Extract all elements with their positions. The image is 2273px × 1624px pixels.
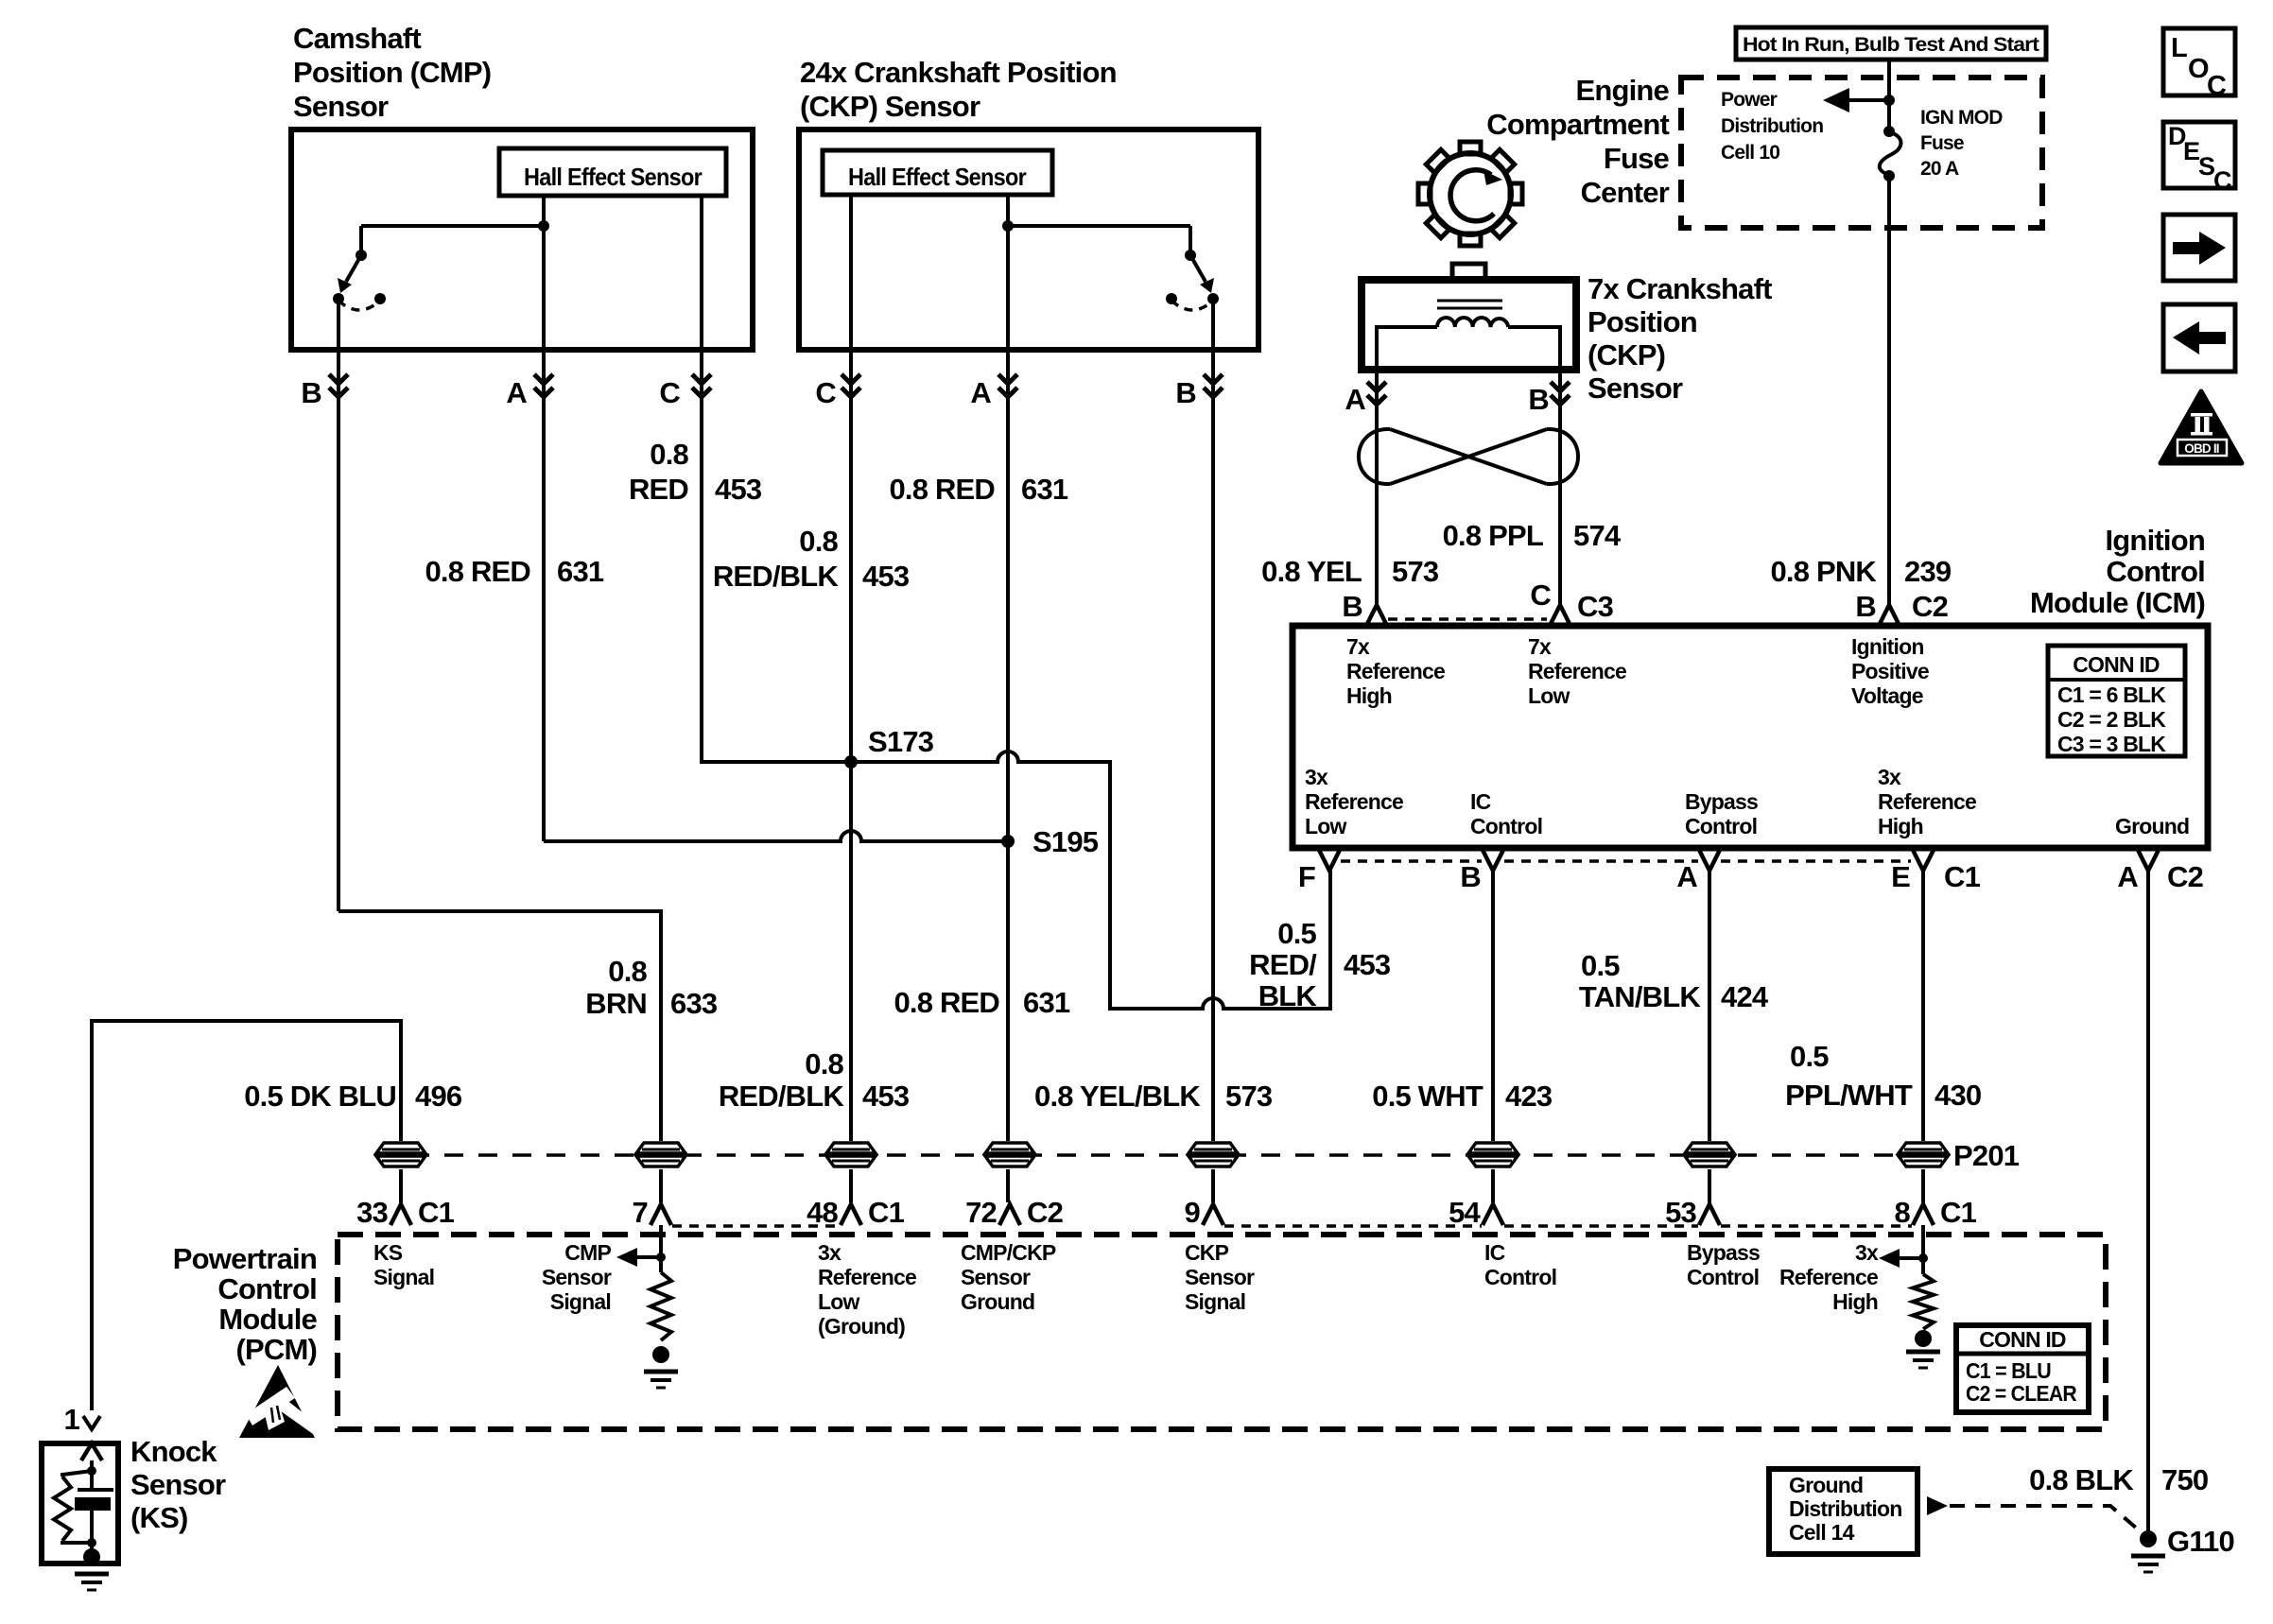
svg-text:C2 = CLEAR: C2 = CLEAR <box>1966 1381 2077 1406</box>
svg-text:Ignition: Ignition <box>2105 524 2205 557</box>
svg-text:Ignition: Ignition <box>1851 634 1924 659</box>
svg-text:Low: Low <box>1305 814 1346 838</box>
svg-text:High: High <box>1346 683 1392 708</box>
svg-text:Reference: Reference <box>1346 659 1445 683</box>
svg-text:B: B <box>1342 590 1362 623</box>
svg-text:C2: C2 <box>2167 860 2203 893</box>
svg-text:0.8: 0.8 <box>805 1047 843 1080</box>
svg-text:IC: IC <box>1470 789 1491 814</box>
svg-text:C: C <box>2213 166 2231 195</box>
svg-text:72: 72 <box>965 1196 997 1229</box>
svg-text:0.8 YEL: 0.8 YEL <box>1261 555 1362 588</box>
svg-text:0.8 BLK: 0.8 BLK <box>2029 1463 2134 1496</box>
svg-text:Positive: Positive <box>1851 659 1929 683</box>
svg-text:1: 1 <box>64 1403 80 1436</box>
svg-text:Hot In Run, Bulb Test And Star: Hot In Run, Bulb Test And Start <box>1743 34 2039 56</box>
svg-text:IC: IC <box>1484 1240 1505 1265</box>
svg-text:Fuse: Fuse <box>1604 142 1670 175</box>
svg-text:A: A <box>970 376 991 409</box>
svg-text:S173: S173 <box>868 725 934 758</box>
svg-text:750: 750 <box>2161 1463 2208 1496</box>
svg-text:Hall Effect Sensor: Hall Effect Sensor <box>848 163 1027 191</box>
svg-text:BRN: BRN <box>585 987 647 1020</box>
svg-text:Ground: Ground <box>961 1289 1034 1314</box>
svg-text:B: B <box>1528 383 1549 416</box>
svg-text:Sensor: Sensor <box>293 90 389 123</box>
svg-text:633: 633 <box>670 987 718 1020</box>
svg-text:453: 453 <box>862 560 910 593</box>
svg-text:0.5: 0.5 <box>1581 949 1620 982</box>
svg-text:RED/BLK: RED/BLK <box>713 560 840 593</box>
svg-text:Engine: Engine <box>1575 74 1669 107</box>
svg-text:Low: Low <box>1528 683 1570 708</box>
svg-text:P201: P201 <box>1953 1139 2020 1172</box>
svg-text:0.5: 0.5 <box>1277 917 1316 950</box>
svg-text:High: High <box>1878 814 1923 838</box>
svg-text:48: 48 <box>807 1196 838 1229</box>
svg-text:631: 631 <box>1023 986 1070 1019</box>
svg-text:A: A <box>506 376 527 409</box>
svg-text:453: 453 <box>862 1080 910 1113</box>
svg-text:0.5 WHT: 0.5 WHT <box>1372 1080 1484 1113</box>
svg-text:Low: Low <box>818 1289 859 1314</box>
svg-text:(Ground): (Ground) <box>818 1314 905 1339</box>
svg-text:Reference: Reference <box>1528 659 1626 683</box>
svg-text:Bypass: Bypass <box>1687 1240 1760 1265</box>
svg-text:C: C <box>2207 71 2227 101</box>
svg-text:Compartment: Compartment <box>1486 108 1669 141</box>
svg-text:54: 54 <box>1449 1196 1481 1229</box>
svg-text:Reference: Reference <box>1305 789 1403 814</box>
svg-text:BLK: BLK <box>1258 979 1318 1012</box>
svg-text:Reference: Reference <box>818 1265 916 1289</box>
svg-text:C3: C3 <box>1577 590 1614 623</box>
svg-text:Sensor: Sensor <box>961 1265 1031 1289</box>
svg-text:430: 430 <box>1935 1079 1981 1112</box>
svg-text:C1: C1 <box>418 1196 455 1229</box>
svg-text:Ground: Ground <box>1789 1473 1863 1497</box>
svg-text:C2: C2 <box>1027 1196 1063 1229</box>
svg-text:RED/: RED/ <box>1249 948 1317 981</box>
svg-text:8: 8 <box>1895 1196 1911 1229</box>
svg-text:0.8: 0.8 <box>650 438 688 471</box>
svg-text:C1: C1 <box>1940 1196 1977 1229</box>
svg-text:0.5 DK BLU: 0.5 DK BLU <box>244 1080 396 1113</box>
svg-text:RED: RED <box>629 473 688 506</box>
svg-text:Control: Control <box>1484 1265 1556 1289</box>
svg-text:OBD II: OBD II <box>2184 441 2219 456</box>
svg-text:Control: Control <box>1685 814 1757 838</box>
svg-text:0.8 RED: 0.8 RED <box>889 473 995 506</box>
svg-text:7x: 7x <box>1528 634 1552 659</box>
svg-text:496: 496 <box>415 1080 462 1113</box>
svg-text:Voltage: Voltage <box>1851 683 1923 708</box>
svg-text:24x Crankshaft Position: 24x Crankshaft Position <box>800 56 1117 89</box>
svg-text:C: C <box>659 376 680 409</box>
svg-text:C3 = 3 BLK: C3 = 3 BLK <box>2057 732 2166 756</box>
svg-text:Sensor: Sensor <box>130 1468 226 1501</box>
svg-text:PPL/WHT: PPL/WHT <box>1785 1079 1913 1112</box>
svg-text:Cell 14: Cell 14 <box>1789 1520 1855 1545</box>
svg-text:33: 33 <box>356 1196 388 1229</box>
svg-text:Bypass: Bypass <box>1685 789 1758 814</box>
svg-text:Control: Control <box>217 1272 317 1305</box>
svg-text:CONN ID: CONN ID <box>1979 1327 2066 1352</box>
svg-text:(CKP) Sensor: (CKP) Sensor <box>800 90 980 123</box>
svg-text:7: 7 <box>633 1196 648 1229</box>
svg-text:C2 = 2 BLK: C2 = 2 BLK <box>2057 707 2166 732</box>
svg-text:High: High <box>1832 1289 1878 1314</box>
svg-text:Center: Center <box>1581 176 1670 209</box>
svg-text:Cell 10: Cell 10 <box>1721 142 1779 164</box>
svg-text:424: 424 <box>1721 980 1769 1013</box>
svg-text:C1: C1 <box>1944 860 1981 893</box>
svg-text:Signal: Signal <box>550 1289 611 1314</box>
svg-text:CKP: CKP <box>1185 1240 1229 1265</box>
svg-text:0.8 PNK: 0.8 PNK <box>1770 555 1877 588</box>
svg-text:453: 453 <box>1344 948 1391 981</box>
svg-text:Sensor: Sensor <box>542 1265 612 1289</box>
svg-text:CONN ID: CONN ID <box>2073 652 2160 677</box>
svg-text:Reference: Reference <box>1878 789 1976 814</box>
svg-text:(PCM): (PCM) <box>235 1333 317 1366</box>
svg-text:Signal: Signal <box>1185 1289 1245 1314</box>
svg-text:0.8: 0.8 <box>799 525 838 558</box>
svg-text:A: A <box>1345 383 1365 416</box>
svg-text:(KS): (KS) <box>130 1501 188 1534</box>
svg-text:S: S <box>2198 152 2214 181</box>
svg-text:G110: G110 <box>2167 1525 2234 1558</box>
svg-text:C1: C1 <box>868 1196 905 1229</box>
svg-text:53: 53 <box>1665 1196 1696 1229</box>
svg-text:7x: 7x <box>1346 634 1370 659</box>
svg-text:573: 573 <box>1392 555 1439 588</box>
svg-text:Distribution: Distribution <box>1789 1496 1901 1521</box>
svg-text:Ground: Ground <box>2115 814 2189 838</box>
svg-text:C2: C2 <box>1912 590 1948 623</box>
svg-text:0.8 YEL/BLK: 0.8 YEL/BLK <box>1034 1080 1201 1113</box>
svg-text:B: B <box>1460 860 1481 893</box>
svg-text:B: B <box>1855 590 1876 623</box>
svg-text:20 A: 20 A <box>1920 158 1959 180</box>
svg-text:B: B <box>1175 376 1196 409</box>
svg-text:Control: Control <box>1470 814 1542 838</box>
svg-text:C1 = 6 BLK: C1 = 6 BLK <box>2057 682 2166 707</box>
svg-text:Signal: Signal <box>373 1265 434 1289</box>
svg-text:O: O <box>2188 54 2209 84</box>
svg-text:A: A <box>1676 860 1697 893</box>
svg-text:9: 9 <box>1185 1196 1201 1229</box>
svg-text:Reference: Reference <box>1779 1265 1878 1289</box>
svg-text:Power: Power <box>1721 89 1778 111</box>
svg-text:Powertrain: Powertrain <box>173 1242 317 1275</box>
svg-text:CMP: CMP <box>564 1240 611 1265</box>
svg-text:0.8 RED: 0.8 RED <box>894 986 999 1019</box>
svg-text:Control: Control <box>1687 1265 1759 1289</box>
svg-text:C: C <box>1530 579 1551 612</box>
svg-text:0.5: 0.5 <box>1790 1040 1829 1073</box>
svg-text:574: 574 <box>1573 519 1622 552</box>
svg-text:RED/BLK: RED/BLK <box>719 1080 845 1113</box>
svg-text:7x Crankshaft: 7x Crankshaft <box>1588 272 1772 305</box>
svg-text:B: B <box>301 376 321 409</box>
svg-text:Distribution: Distribution <box>1721 115 1823 137</box>
svg-text:Fuse: Fuse <box>1920 132 1964 154</box>
svg-text:3x: 3x <box>1878 765 1901 789</box>
svg-text:C: C <box>815 376 836 409</box>
svg-text:TAN/BLK: TAN/BLK <box>1579 980 1702 1013</box>
svg-text:Hall Effect Sensor: Hall Effect Sensor <box>524 163 703 191</box>
svg-text:CMP/CKP: CMP/CKP <box>961 1240 1056 1265</box>
svg-text:0.8 RED: 0.8 RED <box>425 555 530 588</box>
svg-text:Position (CMP): Position (CMP) <box>293 56 491 89</box>
svg-text:Knock: Knock <box>130 1435 217 1468</box>
svg-text:KS: KS <box>373 1240 403 1265</box>
svg-text:Sensor: Sensor <box>1185 1265 1255 1289</box>
svg-text:3x: 3x <box>818 1240 842 1265</box>
svg-text:423: 423 <box>1505 1080 1553 1113</box>
svg-text:A: A <box>2117 860 2138 893</box>
svg-text:E: E <box>1891 860 1910 893</box>
svg-text:239: 239 <box>1904 555 1952 588</box>
svg-text:C1 = BLU: C1 = BLU <box>1966 1358 2051 1383</box>
svg-text:0.8: 0.8 <box>608 955 647 988</box>
svg-text:Position: Position <box>1588 305 1697 338</box>
svg-text:573: 573 <box>1225 1080 1273 1113</box>
svg-text:631: 631 <box>1021 473 1068 506</box>
svg-text:E: E <box>2183 137 2199 165</box>
svg-text:453: 453 <box>715 473 762 506</box>
svg-text:0.8 PPL: 0.8 PPL <box>1443 519 1543 552</box>
svg-text:Sensor: Sensor <box>1588 371 1683 405</box>
svg-text:(CKP): (CKP) <box>1588 338 1665 371</box>
svg-text:S195: S195 <box>1032 825 1099 858</box>
svg-text:Module: Module <box>218 1303 317 1336</box>
svg-text:631: 631 <box>557 555 604 588</box>
svg-text:Module (ICM): Module (ICM) <box>2030 586 2205 619</box>
svg-text:3x: 3x <box>1855 1240 1879 1265</box>
svg-text:L: L <box>2171 33 2187 63</box>
svg-text:F: F <box>1298 860 1315 893</box>
svg-text:3x: 3x <box>1305 765 1328 789</box>
svg-text:Control: Control <box>2106 555 2205 588</box>
svg-text:Camshaft: Camshaft <box>293 22 421 55</box>
svg-text:IGN MOD: IGN MOD <box>1920 107 2003 129</box>
